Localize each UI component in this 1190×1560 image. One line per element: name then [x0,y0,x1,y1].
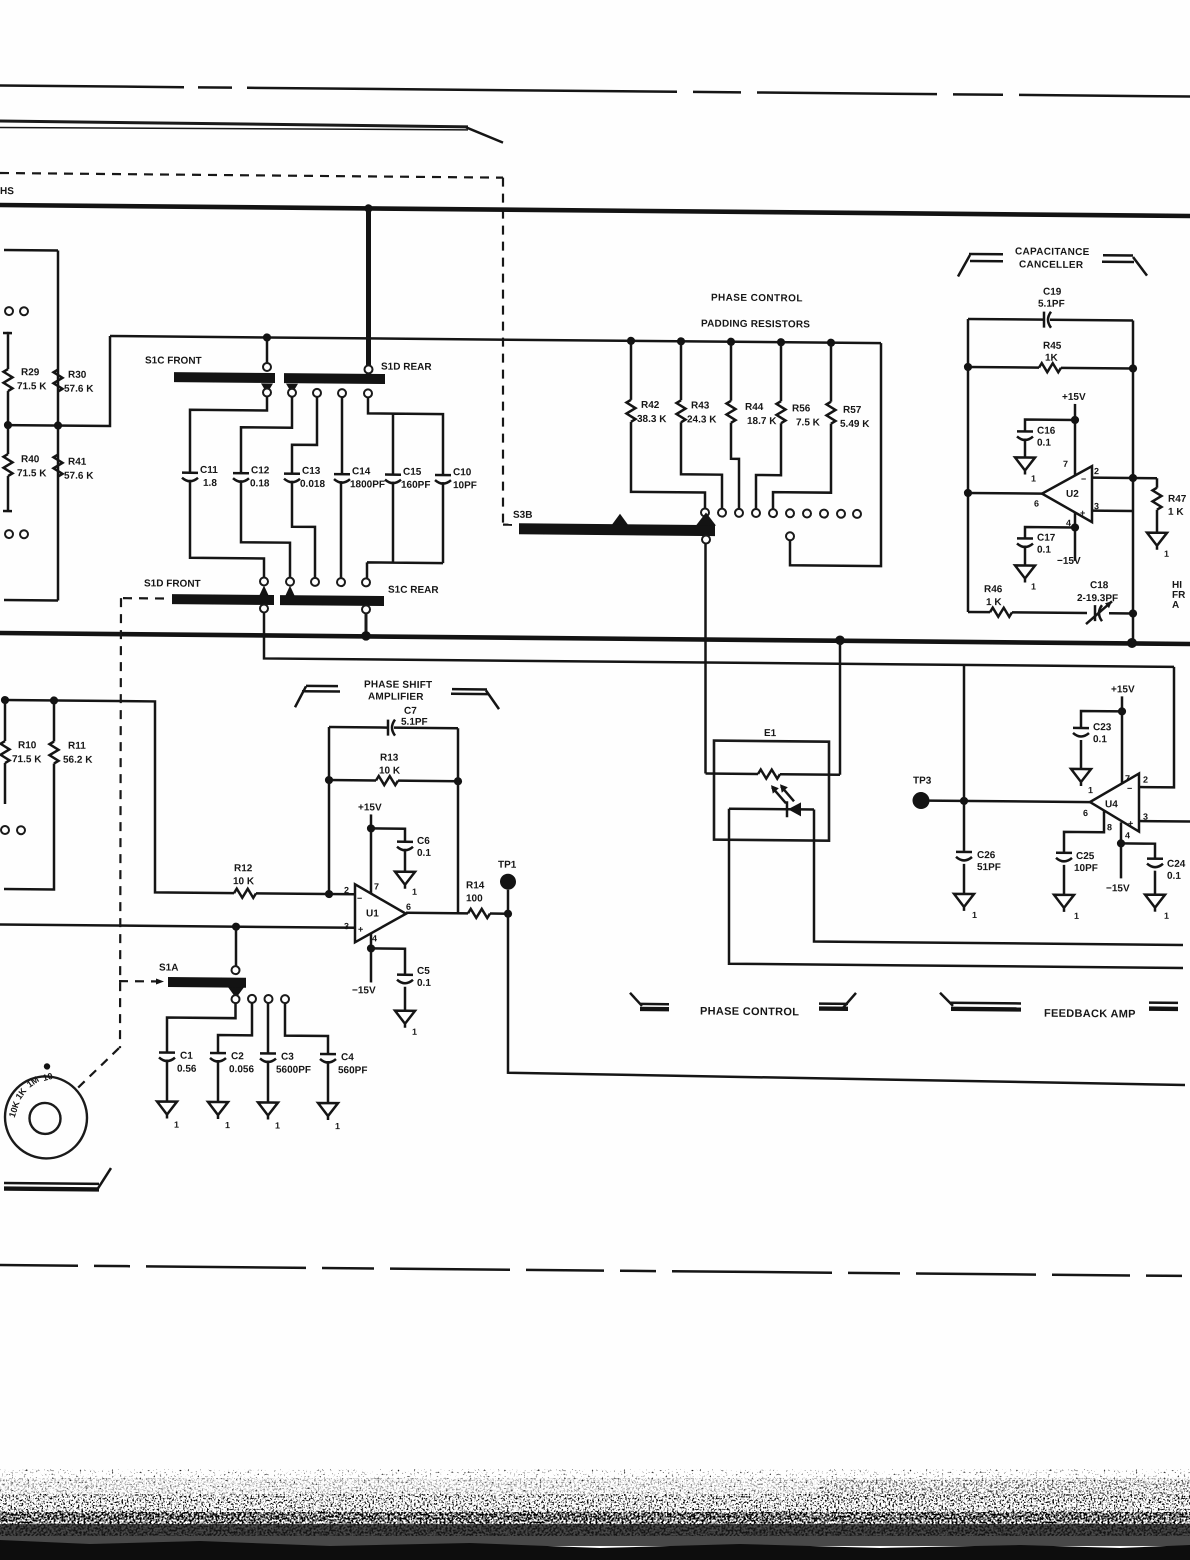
svg-text:C6: C6 [417,836,430,847]
wire to C3 [267,1003,270,1053]
svg-text:AMPLIFIER: AMPLIFIER [368,691,424,703]
svg-text:0.1: 0.1 [1093,734,1107,745]
contact circles above bottom bars [260,577,268,585]
resistor R10 [1,696,9,704]
contact circle below S1D FRONT [260,604,268,612]
svg-text:57.6 K: 57.6 K [64,384,94,395]
wire contact to C12 top [241,396,292,472]
S1A wiper triangle [228,987,244,998]
svg-text:1 K: 1 K [1168,507,1184,518]
wire rail to S1C FRONT contact [266,337,269,365]
svg-text:C5: C5 [417,966,430,977]
svg-text:−: − [1127,783,1132,793]
junction wire between R29/R40 and R30/R41 [8,335,110,426]
svg-text:+: + [1080,508,1085,518]
dashed diagonal to wafer [78,1048,119,1088]
svg-text:C4: C4 [341,1052,354,1063]
ground below C2 [217,1060,220,1102]
svg-text:4: 4 [372,933,377,943]
svg-text:C12: C12 [251,465,270,476]
wire R40 lower with tick [3,425,12,511]
svg-text:10K: 10K [7,1100,22,1119]
svg-text:0.1: 0.1 [417,848,431,859]
svg-text:7.5 K: 7.5 K [796,417,821,428]
wire U4 pin2 to feedback loop [1139,667,1174,788]
svg-text:56.2 K: 56.2 K [63,755,93,766]
wire canceller left vertical [967,319,970,612]
E1 lamp resistor [706,774,841,775]
svg-text:1: 1 [412,887,417,897]
svg-text:C14: C14 [352,466,371,477]
svg-text:R41: R41 [68,457,87,468]
svg-text:0.1: 0.1 [1167,871,1181,882]
top dash-dot separator line [0,86,1190,97]
junction dot lower bus at S1C REAR [361,631,371,641]
svg-text:7: 7 [1063,459,1068,469]
ground below C4 [327,1061,330,1103]
resistor R42 [630,341,633,400]
E1 box [714,741,829,841]
junction dot lower bus at canceller [1127,638,1137,648]
contact circle below S1C REAR [362,605,370,613]
contact circles lower left pair [5,530,13,538]
switch S3B bar [519,523,715,536]
ground below C26 [963,864,966,894]
svg-text:E1: E1 [764,728,777,739]
resistor R47 [1156,478,1159,488]
resistor R11 [50,696,58,704]
wire U4 pin3 to right edge [1139,820,1190,823]
lower bus wire [0,633,1190,644]
switch S1C REAR bar [280,595,384,606]
wire U2 pin3 [1092,509,1133,512]
dashed selector feed vertical [120,598,121,1048]
FEEDBACK AMP section divider left [940,993,953,1006]
resistor R56 [780,342,783,401]
header bracket left [295,686,306,707]
junction on top bus at S1D REAR feed [364,204,372,212]
wire S1C REAR contact to lower bus [365,613,368,635]
ground below C1 [166,1060,169,1102]
svg-text:1 K: 1 K [986,597,1002,608]
svg-text:1: 1 [1164,549,1169,559]
wire feedback right vertical [457,728,460,913]
contact circle above S1C FRONT [263,363,271,371]
svg-text:7: 7 [1125,773,1130,783]
svg-text:C1: C1 [180,1051,193,1062]
wire U2 pin2 to R47 [1092,476,1157,479]
svg-text:7: 7 [374,881,379,891]
switch S1D REAR bar [284,373,385,384]
wire S3B wiper down to E1 [704,544,707,774]
wiper triangle above S1C REAR [284,586,296,599]
svg-text:S1D REAR: S1D REAR [381,362,432,373]
bottom dashed separator [0,1265,1190,1276]
op-amp U4 [1090,773,1139,831]
contact circles left mid pair [1,826,9,834]
svg-text:1: 1 [972,910,977,920]
contact circle above S1A [232,966,240,974]
svg-text:FEEDBACK AMP: FEEDBACK AMP [1044,1008,1136,1021]
wire U4 pin8 to C25 [1064,811,1104,852]
ground below C3 [267,1060,270,1102]
S3B wiper triangle at end [696,512,716,525]
svg-text:10 K: 10 K [233,876,255,887]
svg-text:PHASE CONTROL: PHASE CONTROL [711,293,803,305]
svg-text:−15V: −15V [352,985,376,996]
svg-text:TP1: TP1 [498,860,517,871]
ground below C25 [1063,865,1066,895]
resistor R40 [4,454,13,476]
S3B contact circle row [701,508,709,516]
wire E1 feed from lower bus [839,640,842,775]
wire to C4 [285,1003,328,1053]
wire feedback left vertical [328,727,331,894]
contact circles below top bars [263,388,271,396]
svg-text:10: 10 [42,1071,54,1083]
junction dot on rail [263,333,271,341]
wire from left area to R12 [5,700,234,893]
capacitor C2 [210,1053,226,1062]
wire C14 bottom [340,481,343,580]
svg-text:6: 6 [406,902,411,912]
resistor R44 [730,342,733,401]
svg-text:R44: R44 [745,402,764,413]
svg-text:C17: C17 [1037,533,1056,544]
svg-text:C18: C18 [1090,580,1109,591]
svg-text:R45: R45 [1043,341,1062,352]
svg-text:1: 1 [174,1120,179,1130]
svg-text:R47: R47 [1168,494,1187,505]
wafer switch rotor outer [5,1076,87,1159]
svg-text:R29: R29 [21,367,40,378]
svg-text:U1: U1 [366,908,379,919]
wire: R29 top continuation tick [3,333,12,369]
wire S1A to C1 [167,1003,236,1053]
svg-text:5.1PF: 5.1PF [401,717,428,728]
dashed link to S1A with arrow [119,980,158,983]
svg-text:1: 1 [1031,582,1036,592]
ground below C23 [1080,740,1083,769]
capacitor C1 [159,1052,175,1061]
header bracket right [1103,254,1133,257]
wire U2 output to left vertical [968,492,1042,495]
capacitor C3 [260,1053,276,1062]
capacitor C24 [1121,843,1155,857]
svg-text:0.1: 0.1 [1037,545,1051,556]
scan artifact: bottom black band [0,1469,1190,1560]
E1 photo arrows [772,786,794,803]
capacitor C23 [1081,711,1122,727]
svg-text:TP3: TP3 [913,775,932,786]
wire: R29 to junction row [7,391,10,425]
svg-text:18.7 K: 18.7 K [747,416,777,427]
svg-text:8: 8 [1107,822,1112,832]
svg-text:U4: U4 [1105,799,1118,810]
svg-text:0.1: 0.1 [1037,438,1051,449]
capacitor C13 [284,474,300,483]
contact circles below S1A [232,995,240,1003]
capacitor C15 [385,475,401,484]
ground below C6 [404,849,407,872]
svg-text:5.49 K: 5.49 K [840,419,870,430]
svg-text:160PF: 160PF [401,480,430,491]
svg-text:R30: R30 [68,370,87,381]
wire: R30/R41 column vertical [57,251,60,601]
svg-text:100: 100 [466,893,483,904]
svg-text:S3B: S3B [513,510,532,521]
svg-text:R46: R46 [984,584,1003,595]
svg-text:5600PF: 5600PF [276,1065,311,1076]
svg-text:1.8: 1.8 [203,478,217,489]
wire contact to C11 top [190,396,267,473]
svg-text:0.56: 0.56 [177,1064,197,1075]
svg-text:+: + [358,924,363,934]
wire contact to C15/C10 tops [368,397,443,474]
contact circles upper left pair [5,307,13,315]
S3B wiper triangle small [612,514,628,525]
svg-text:−15V: −15V [1106,883,1130,894]
wire U1 pin3 tap down to S1A [235,927,238,968]
svg-text:S1D FRONT: S1D FRONT [144,578,201,590]
svg-text:6: 6 [1034,499,1039,509]
wire tap up to feedback loop [963,665,966,801]
svg-text:C10: C10 [453,467,472,478]
page-edge curl upper thick line [0,121,468,127]
svg-text:1K: 1K [1045,353,1059,364]
svg-text:S1A: S1A [159,962,178,973]
svg-text:C25: C25 [1076,851,1095,862]
capacitor C5 [371,948,405,973]
svg-text:−15V: −15V [1057,556,1081,567]
capacitor C4 [320,1054,336,1063]
resistor R29 [4,369,13,391]
dashed link to S1D FRONT [123,597,170,600]
wire U1 pin3 from left edge [0,925,355,928]
svg-text:C3: C3 [281,1052,294,1063]
long rail wire to padding resistors [110,336,881,343]
wire C11 bottom to S1D FRONT contact [190,480,264,580]
ground below C16 [1024,438,1027,457]
wire R44 to contact [731,423,739,509]
PHASE CONTROL section divider right [819,1002,848,1005]
svg-text:10PF: 10PF [453,480,477,491]
wafer index dot [44,1063,50,1069]
header bracket right [452,688,487,691]
svg-text:71.5 K: 71.5 K [17,381,47,392]
wire canceller right vertical [1132,320,1135,642]
junction dot lower bus at E1 feed [835,635,845,645]
wire: R41 bottom to left edge [4,599,58,602]
svg-text:1: 1 [335,1121,340,1131]
wire U1 output [406,912,468,915]
svg-text:R43: R43 [691,400,710,411]
svg-text:C15: C15 [403,467,422,478]
junction dot R30/R41 [54,421,62,429]
left network: R30 top wire [4,249,58,252]
svg-text:24.3 K: 24.3 K [687,414,717,425]
capacitor C11 [182,473,198,482]
svg-text:6: 6 [1083,808,1088,818]
switch S1A bar [168,977,246,988]
svg-text:HS: HS [0,186,14,197]
svg-text:+15V: +15V [1062,392,1086,403]
wire U1 pin4 down [370,933,373,982]
svg-text:4: 4 [1125,830,1130,840]
wire contact to C13 top [292,397,317,473]
svg-text:A: A [1172,600,1179,611]
svg-text:C19: C19 [1043,287,1062,298]
svg-text:−: − [1081,474,1086,484]
svg-text:R10: R10 [18,740,37,751]
svg-text:U2: U2 [1066,489,1079,500]
svg-text:CANCELLER: CANCELLER [1019,259,1084,271]
svg-text:71.5 K: 71.5 K [12,754,42,765]
wire R42 to contact [631,422,705,509]
capacitor C16 [1025,419,1075,430]
resistor R43 [680,341,683,400]
wire TP1 down and right [508,890,1185,1085]
capacitor C17 [1025,527,1075,538]
wiper triangle below S1D REAR left [286,384,298,394]
svg-text:R14: R14 [466,880,485,891]
svg-text:71.5 K: 71.5 K [17,468,47,479]
svg-text:1: 1 [412,1027,417,1037]
svg-text:R40: R40 [21,454,40,465]
resistor R30 [54,369,63,391]
svg-text:5.1PF: 5.1PF [1038,299,1065,310]
capacitor C6 [371,828,405,840]
capacitor C26 [963,801,966,851]
svg-text:3: 3 [344,921,349,931]
svg-text:C16: C16 [1037,426,1056,437]
page-edge curl lower thin line [0,126,468,132]
svg-text:1: 1 [225,1120,230,1130]
svg-text:57.6 K: 57.6 K [64,471,94,482]
wire E1 right lead to long line [814,810,1183,945]
svg-text:C11: C11 [200,465,218,476]
thick wire from top bus down to S1D REAR [366,208,371,374]
wire contact to C14 top [341,397,344,473]
svg-text:C13: C13 [302,466,321,477]
wire E1 left lead to long line [729,809,1183,968]
wire R57 to contact [773,423,831,510]
svg-text:2: 2 [1143,775,1148,785]
svg-text:R57: R57 [843,405,862,416]
svg-text:1: 1 [1074,911,1079,921]
PHASE CONTROL section divider left [630,993,642,1006]
switch S1D FRONT bar [172,594,274,605]
svg-text:R11: R11 [68,741,86,752]
svg-text:+15V: +15V [358,802,382,813]
wire TP3 to U4 [929,801,1090,802]
svg-text:C23: C23 [1093,722,1112,733]
wire C15/C10 bottoms joined [367,481,443,581]
svg-text:+: + [1128,818,1133,828]
dashed enclosure top edge [0,173,503,178]
svg-text:0.18: 0.18 [250,478,270,489]
wire to C2 [218,1003,252,1053]
wafer switch rotor inner [30,1103,61,1134]
capacitor C12 [233,473,249,482]
svg-text:R13: R13 [380,753,399,764]
resistor R41 [54,454,63,476]
switch S1C FRONT bar [174,372,275,383]
resistor R57 [830,343,833,402]
svg-text:C26: C26 [977,850,996,861]
svg-text:0.1: 0.1 [417,978,431,989]
svg-text:38.3 K: 38.3 K [637,414,667,425]
bottom left section divider [4,1182,99,1185]
svg-text:PADDING RESISTORS: PADDING RESISTORS [701,318,810,330]
wire R56 to contact [756,423,781,509]
long wire from S1D FRONT contact to feedback loop [264,612,1174,666]
main top bus wire [0,205,1190,216]
svg-text:2: 2 [344,885,349,895]
svg-text:C24: C24 [1167,859,1186,870]
svg-text:S1C FRONT: S1C FRONT [145,355,202,367]
svg-text:CAPACITANCE: CAPACITANCE [1015,246,1090,258]
ground below R47 [1147,533,1167,550]
op-amp U2 [1042,466,1092,522]
junction dot R29/R40 [4,421,12,429]
wire C12 bottom [241,480,290,579]
svg-text:PHASE CONTROL: PHASE CONTROL [700,1005,799,1018]
svg-text:1: 1 [275,1121,280,1131]
wiper triangle above S1D FRONT [258,585,270,598]
E1 photodiode [729,807,814,810]
svg-text:1: 1 [1088,785,1093,795]
junction dots on rail for padding resistors [627,337,635,345]
svg-text:PHASE SHIFT: PHASE SHIFT [364,679,432,691]
wire R43 to contact [681,422,722,508]
return wire: lower contact to rail right end [786,532,794,540]
svg-text:10PF: 10PF [1074,863,1098,874]
svg-text:C7: C7 [404,706,417,717]
header bracket left [958,255,970,277]
wiper triangle below S1C FRONT [261,383,273,393]
svg-text:R42: R42 [641,400,660,411]
svg-text:1: 1 [1031,474,1036,484]
wire C13 bottom [292,481,315,580]
svg-text:1800PF: 1800PF [350,479,385,490]
svg-text:2: 2 [1094,466,1099,476]
svg-text:C2: C2 [231,1051,244,1062]
svg-text:0.018: 0.018 [300,479,325,490]
svg-text:1: 1 [1164,911,1169,921]
op-amp U1 [355,884,406,942]
svg-text:560PF: 560PF [338,1065,367,1076]
ground below C5 [404,987,407,1011]
FEEDBACK AMP section divider right [1149,1001,1178,1004]
wire U4 pin4 down [1120,822,1123,878]
svg-text:+15V: +15V [1111,684,1135,695]
capacitor C25 [1056,853,1072,862]
capacitor C10 [435,475,451,484]
page-edge curl hook [466,127,503,142]
svg-text:51PF: 51PF [977,862,1001,873]
svg-text:S1C REAR: S1C REAR [388,585,439,596]
svg-text:R56: R56 [792,403,811,414]
svg-text:0.056: 0.056 [229,1064,254,1075]
dashed link to S3B bar [503,524,519,526]
contact circle below S3B [702,535,710,543]
dashed enclosure right edge [502,178,504,525]
ground below C17 [1024,545,1027,565]
ground below C24 [1154,871,1157,895]
svg-text:R12: R12 [234,863,253,874]
capacitor C14 [334,474,350,483]
